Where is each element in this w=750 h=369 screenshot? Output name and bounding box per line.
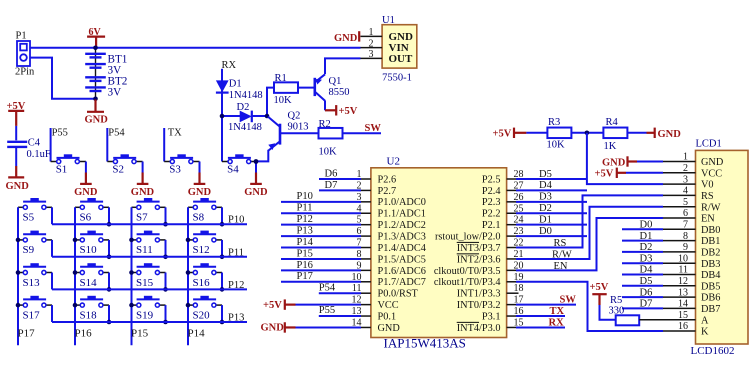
svg-text:12: 12: [678, 276, 688, 287]
svg-text:OUT: OUT: [389, 53, 414, 65]
svg-text:GND: GND: [6, 181, 30, 192]
svg-text:P2.1: P2.1: [482, 220, 501, 231]
svg-text:10K: 10K: [274, 95, 293, 106]
svg-text:S7: S7: [136, 212, 148, 224]
svg-text:GND: GND: [244, 187, 268, 198]
svg-text:S16: S16: [193, 277, 211, 289]
svg-text:13: 13: [678, 287, 688, 298]
svg-text:8: 8: [683, 231, 688, 242]
svg-text:P11: P11: [297, 203, 313, 214]
svg-text:DB0: DB0: [701, 225, 720, 236]
svg-text:GND: GND: [74, 187, 98, 198]
svg-text:3V: 3V: [108, 64, 122, 76]
svg-text:P1.0/ADC0: P1.0/ADC0: [378, 197, 426, 208]
svg-text:DB7: DB7: [701, 304, 720, 315]
svg-text:RX: RX: [222, 60, 237, 71]
svg-text:R5: R5: [610, 295, 622, 306]
svg-text:D5: D5: [539, 169, 552, 180]
svg-text:P14: P14: [297, 237, 314, 248]
svg-text:P15: P15: [131, 327, 149, 339]
svg-text:S6: S6: [80, 212, 92, 224]
svg-text:P10: P10: [228, 215, 244, 226]
svg-text:D1: D1: [640, 231, 653, 242]
svg-text:TX: TX: [550, 306, 565, 317]
svg-text:D6: D6: [325, 168, 338, 179]
svg-text:GND: GND: [658, 129, 682, 140]
svg-text:D1: D1: [539, 214, 552, 225]
svg-text:S9: S9: [23, 244, 35, 256]
svg-text:S1: S1: [56, 163, 68, 175]
svg-text:D4: D4: [539, 180, 553, 191]
svg-text:EN: EN: [701, 214, 715, 225]
svg-text:7: 7: [683, 220, 688, 231]
svg-text:R4: R4: [606, 117, 619, 128]
svg-text:rstout_low/P2.0: rstout_low/P2.0: [435, 232, 501, 243]
svg-text:9013: 9013: [288, 122, 309, 133]
svg-text:S17: S17: [23, 309, 41, 321]
svg-text:P17: P17: [297, 271, 313, 282]
svg-text:10K: 10K: [319, 147, 338, 158]
svg-text:GND: GND: [261, 323, 285, 334]
svg-text:P2.5: P2.5: [482, 174, 501, 185]
svg-text:2: 2: [369, 38, 374, 49]
svg-text:16: 16: [678, 321, 688, 332]
svg-text:S3: S3: [169, 163, 181, 175]
svg-text:0.1uF: 0.1uF: [27, 149, 51, 160]
svg-text:GND: GND: [701, 157, 724, 168]
svg-text:R1: R1: [275, 73, 287, 84]
svg-text:2Pin: 2Pin: [15, 67, 35, 78]
svg-text:GND: GND: [131, 187, 155, 198]
svg-text:18: 18: [514, 283, 524, 294]
svg-text:DB1: DB1: [701, 236, 720, 247]
svg-text:330: 330: [609, 306, 625, 317]
svg-text:INT0/P3.2: INT0/P3.2: [457, 300, 501, 311]
svg-text:P2.3: P2.3: [482, 197, 501, 208]
svg-text:GND: GND: [378, 323, 401, 334]
svg-text:1: 1: [683, 152, 688, 163]
svg-text:S10: S10: [80, 244, 98, 256]
svg-text:P54: P54: [319, 282, 336, 293]
svg-text:VCC: VCC: [701, 168, 722, 179]
svg-text:Q1: Q1: [329, 76, 342, 87]
svg-text:P2.2: P2.2: [482, 209, 501, 220]
svg-text:3V: 3V: [108, 87, 122, 99]
svg-text:INT2/P3.6: INT2/P3.6: [457, 254, 501, 265]
svg-text:5: 5: [683, 197, 688, 208]
svg-text:clkout0/T0/P3.5: clkout0/T0/P3.5: [434, 266, 501, 277]
svg-text:+5V: +5V: [339, 106, 358, 117]
svg-text:D2: D2: [237, 102, 250, 113]
svg-text:S4: S4: [227, 163, 239, 175]
svg-text:P1.4/ADC4: P1.4/ADC4: [378, 243, 426, 254]
svg-text:9: 9: [683, 242, 688, 253]
svg-text:1: 1: [369, 27, 374, 38]
svg-text:6: 6: [683, 208, 688, 219]
svg-text:DB3: DB3: [701, 259, 720, 270]
svg-text:GND: GND: [188, 187, 212, 198]
svg-text:INT3/P3.7: INT3/P3.7: [457, 243, 501, 254]
svg-text:P55: P55: [52, 128, 68, 139]
svg-text:VCC: VCC: [378, 300, 399, 311]
svg-text:LCD1: LCD1: [696, 139, 722, 150]
svg-text:D4: D4: [640, 265, 654, 276]
svg-text:2: 2: [683, 163, 688, 174]
svg-text:P1.3/ADC3: P1.3/ADC3: [378, 232, 426, 243]
svg-text:RS: RS: [554, 238, 567, 249]
svg-text:D0: D0: [640, 220, 653, 231]
svg-text:P11: P11: [228, 247, 244, 258]
svg-text:SW: SW: [560, 294, 577, 305]
svg-text:P10: P10: [297, 191, 313, 202]
svg-text:K: K: [701, 327, 709, 338]
svg-text:RS: RS: [701, 191, 714, 202]
svg-text:DB5: DB5: [701, 281, 720, 292]
svg-text:+5V: +5V: [595, 168, 614, 179]
svg-text:DB2: DB2: [701, 248, 720, 259]
svg-text:D7: D7: [640, 299, 653, 310]
svg-text:GND: GND: [85, 115, 109, 126]
svg-text:S14: S14: [80, 277, 98, 289]
svg-text:+5V: +5V: [493, 128, 512, 139]
svg-text:P1: P1: [16, 31, 27, 42]
svg-text:S11: S11: [136, 244, 153, 256]
svg-text:+5V: +5V: [263, 300, 282, 311]
svg-text:D2: D2: [539, 203, 552, 214]
svg-text:INT1/P3.3: INT1/P3.3: [457, 289, 501, 300]
svg-text:P15: P15: [297, 248, 313, 259]
svg-text:D2: D2: [640, 242, 653, 253]
svg-text:P1.5/ADC5: P1.5/ADC5: [378, 254, 426, 265]
svg-text:RX: RX: [549, 317, 565, 328]
svg-text:P13: P13: [297, 226, 313, 237]
svg-text:D1: D1: [229, 78, 242, 89]
svg-text:14: 14: [678, 299, 688, 310]
svg-text:4: 4: [683, 186, 688, 197]
svg-text:1K: 1K: [604, 141, 617, 152]
svg-text:P17: P17: [18, 327, 36, 339]
svg-text:S19: S19: [136, 309, 154, 321]
svg-text:A: A: [701, 315, 709, 326]
svg-text:R2: R2: [319, 119, 331, 130]
svg-text:D3: D3: [640, 253, 653, 264]
svg-text:C4: C4: [28, 138, 41, 149]
svg-text:3: 3: [369, 49, 374, 60]
svg-text:U2: U2: [387, 156, 400, 168]
svg-text:LCD1602: LCD1602: [691, 345, 735, 357]
svg-text:3: 3: [683, 174, 688, 185]
svg-text:P14: P14: [188, 327, 206, 339]
svg-text:P12: P12: [297, 214, 313, 225]
svg-text:S20: S20: [193, 309, 211, 321]
svg-text:DB6: DB6: [701, 293, 720, 304]
svg-text:P0.0/RST: P0.0/RST: [378, 289, 419, 300]
svg-text:1N4148: 1N4148: [228, 122, 262, 133]
svg-text:GND: GND: [602, 158, 626, 169]
svg-text:P16: P16: [75, 327, 93, 339]
svg-text:P2.6: P2.6: [378, 174, 397, 185]
svg-text:S8: S8: [193, 212, 205, 224]
svg-text:DB4: DB4: [701, 270, 720, 281]
svg-text:8550: 8550: [329, 87, 350, 98]
svg-text:GND: GND: [389, 31, 414, 43]
svg-text:P1.6/ADC6: P1.6/ADC6: [378, 266, 426, 277]
svg-text:INT4/P3.0: INT4/P3.0: [457, 323, 501, 334]
svg-text:P1.2/ADC2: P1.2/ADC2: [378, 220, 426, 231]
svg-text:P2.7: P2.7: [378, 186, 397, 197]
svg-text:+5V: +5V: [590, 282, 609, 293]
svg-text:P1.7/ADC7: P1.7/ADC7: [378, 277, 426, 288]
svg-text:S12: S12: [193, 244, 210, 256]
svg-text:S2: S2: [112, 163, 124, 175]
svg-text:EN: EN: [554, 261, 568, 272]
svg-text:clkout1/T0/P3.4: clkout1/T0/P3.4: [434, 277, 501, 288]
svg-text:D3: D3: [539, 192, 552, 203]
svg-text:D5: D5: [640, 276, 653, 287]
svg-text:D0: D0: [539, 226, 552, 237]
svg-text:V0: V0: [701, 180, 714, 191]
svg-text:D6: D6: [640, 287, 653, 298]
svg-text:S13: S13: [23, 277, 41, 289]
svg-text:P3.1: P3.1: [482, 311, 501, 322]
svg-text:P12: P12: [228, 280, 244, 291]
svg-text:P16: P16: [297, 260, 313, 271]
svg-text:SW: SW: [365, 123, 382, 134]
svg-text:S15: S15: [136, 277, 154, 289]
svg-text:S5: S5: [23, 212, 35, 224]
svg-text:R3: R3: [548, 117, 560, 128]
svg-text:10K: 10K: [547, 140, 566, 151]
svg-text:IAP15W413AS: IAP15W413AS: [384, 336, 466, 351]
svg-text:11: 11: [678, 265, 688, 276]
svg-text:R/W: R/W: [552, 249, 572, 260]
svg-text:P13: P13: [228, 313, 244, 324]
svg-text:D7: D7: [325, 180, 338, 191]
svg-text:1N4148: 1N4148: [229, 90, 263, 101]
svg-text:P54: P54: [108, 128, 125, 139]
svg-text:7550-1: 7550-1: [382, 73, 412, 84]
svg-text:P0.1: P0.1: [378, 311, 397, 322]
svg-text:10: 10: [678, 253, 688, 264]
svg-text:15: 15: [678, 310, 688, 321]
svg-text:S18: S18: [80, 309, 98, 321]
svg-text:P1.1/ADC1: P1.1/ADC1: [378, 209, 426, 220]
svg-text:P55: P55: [319, 305, 335, 316]
svg-text:Q2: Q2: [288, 111, 301, 122]
svg-text:R/W: R/W: [701, 202, 721, 213]
svg-text:GND: GND: [334, 33, 358, 44]
svg-text:P2.4: P2.4: [482, 186, 501, 197]
svg-text:TX: TX: [168, 128, 182, 139]
